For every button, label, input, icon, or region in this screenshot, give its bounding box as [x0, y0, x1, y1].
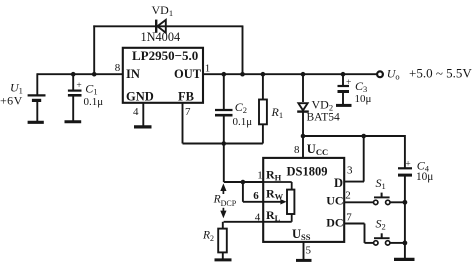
- ground (C1): [65, 120, 82, 123]
- wire D pin: [344, 181, 364, 183]
- svg-text:Uo: Uo: [387, 67, 400, 82]
- wire C3 ground stem: [342, 92, 344, 104]
- svg-text:R2: R2: [202, 230, 214, 243]
- wire D riser: [363, 136, 365, 182]
- svg-text:D: D: [334, 176, 343, 190]
- wire FB node line: [183, 143, 263, 145]
- regulator LP2950 box: [123, 48, 203, 103]
- wire R1 top stem: [262, 74, 264, 99]
- svg-text:1: 1: [205, 63, 211, 75]
- svg-text:S1: S1: [376, 176, 386, 191]
- svg-text:BAT54: BAT54: [307, 112, 340, 124]
- wire VD2 top stem: [302, 74, 304, 102]
- wire R2 top stem: [222, 222, 224, 229]
- wire UC pin: [344, 201, 373, 203]
- svg-text:IN: IN: [126, 67, 140, 81]
- wire output bus: [203, 73, 377, 75]
- svg-text:3: 3: [347, 164, 353, 176]
- wire VD1 left riser: [93, 25, 95, 74]
- svg-text:DS1809: DS1809: [287, 164, 328, 178]
- wire DC pin: [344, 223, 364, 225]
- wire RW pin line: [243, 201, 263, 203]
- capacitor C2: [215, 110, 233, 115]
- wire RW branch drop: [242, 182, 244, 202]
- ground (right column): [394, 258, 415, 261]
- capacitor C1: [68, 91, 82, 96]
- annotation RDCP down arrow: [220, 208, 226, 218]
- wire battery riser: [36, 73, 38, 94]
- capacitor C4: [398, 168, 412, 175]
- svg-text:VD1: VD1: [152, 3, 174, 18]
- wire R1 bottom stem: [262, 124, 264, 143]
- svg-text:5: 5: [306, 244, 312, 256]
- svg-text:RDCP: RDCP: [213, 193, 237, 208]
- svg-text:10μ: 10μ: [355, 93, 372, 105]
- svg-text:UC: UC: [326, 193, 343, 207]
- svg-text:10μ: 10μ: [416, 171, 433, 183]
- svg-text:RL: RL: [266, 208, 281, 223]
- svg-text:0.1μ: 0.1μ: [233, 116, 253, 128]
- wire C3 stem: [342, 74, 344, 86]
- pushbutton S2: [374, 233, 390, 245]
- wire DC to S2: [365, 242, 374, 244]
- svg-text:USS: USS: [292, 227, 311, 242]
- wire R2 bottom stem: [222, 252, 224, 258]
- wire C2 stem top: [223, 74, 225, 109]
- wire right column top: [404, 135, 406, 168]
- wire S1 to column: [390, 201, 405, 203]
- resistor R2: [218, 229, 227, 253]
- wire Uss stub: [303, 242, 305, 260]
- resistor R1: [259, 100, 267, 125]
- wire C2 stem bottom: [223, 116, 225, 144]
- svg-text:RW: RW: [266, 186, 284, 201]
- wire Ucc bus: [303, 135, 405, 137]
- potentiometer inside DS1809: [263, 182, 294, 222]
- svg-text:S2: S2: [376, 216, 386, 231]
- svg-text:1N4004: 1N4004: [141, 30, 181, 44]
- svg-text:DC: DC: [326, 216, 343, 230]
- wire top bypass: [93, 25, 243, 27]
- svg-text:+: +: [76, 81, 81, 91]
- svg-text:R1: R1: [271, 105, 284, 120]
- wire battery ground stem: [36, 101, 38, 121]
- ground (LP2950 GND pin): [134, 125, 152, 128]
- wire C1 ground stem: [72, 96, 74, 121]
- svg-text:RH: RH: [266, 168, 282, 183]
- svg-text:C1: C1: [85, 81, 97, 96]
- svg-text:2: 2: [345, 190, 351, 202]
- svg-text:+: +: [346, 78, 351, 88]
- ground (R2): [215, 258, 232, 261]
- svg-text:7: 7: [185, 106, 191, 118]
- wire RL pin line: [224, 221, 264, 223]
- svg-text:1: 1: [257, 169, 263, 181]
- IC DS1809 box: [263, 158, 344, 242]
- wire FB stub: [182, 103, 184, 144]
- pushbutton S1: [374, 193, 390, 205]
- wiper arrow inside DS1809: [280, 199, 286, 204]
- svg-text:OUT: OUT: [174, 67, 202, 81]
- annotation RDCP up arrow: [220, 183, 226, 194]
- svg-text:+: +: [405, 159, 410, 169]
- svg-text:FB: FB: [178, 89, 194, 103]
- svg-text:4: 4: [133, 106, 139, 118]
- ground (battery): [28, 121, 44, 124]
- wire FB to RH drop: [223, 144, 225, 183]
- wire RH pin line: [224, 181, 263, 183]
- ground (C3): [336, 104, 352, 107]
- svg-text:0.1μ: 0.1μ: [84, 96, 104, 108]
- terminal Uo: [377, 71, 383, 77]
- svg-text:GND: GND: [126, 90, 154, 104]
- svg-text:6: 6: [253, 190, 259, 202]
- svg-text:+6V: +6V: [0, 94, 23, 108]
- svg-text:LP2950−5.0: LP2950−5.0: [132, 48, 198, 63]
- diode VD1: [156, 20, 166, 33]
- diode VD2: [297, 103, 309, 111]
- svg-text:VD2: VD2: [312, 98, 334, 113]
- svg-text:8: 8: [294, 144, 300, 156]
- battery U1: [28, 95, 46, 100]
- ground (Uss): [296, 259, 312, 262]
- svg-text:7: 7: [346, 212, 352, 224]
- svg-text:UCC: UCC: [307, 142, 328, 157]
- svg-text:4: 4: [255, 211, 261, 223]
- wire GND stub: [142, 103, 144, 126]
- wire VD1 right riser: [242, 26, 244, 74]
- wire input bus: [37, 73, 123, 75]
- wire C1 stem: [72, 74, 74, 90]
- wire DC drop: [364, 224, 366, 243]
- wire S2 to column: [390, 242, 405, 244]
- wire right column bottom: [404, 175, 406, 259]
- wire VD2 bottom stem: [302, 113, 304, 137]
- svg-text:8: 8: [115, 62, 121, 74]
- capacitor C3: [338, 86, 350, 92]
- svg-text:C2: C2: [235, 100, 247, 115]
- wire Ucc stub: [302, 136, 304, 158]
- svg-text:+5.0 ~ 5.5V: +5.0 ~ 5.5V: [409, 66, 472, 81]
